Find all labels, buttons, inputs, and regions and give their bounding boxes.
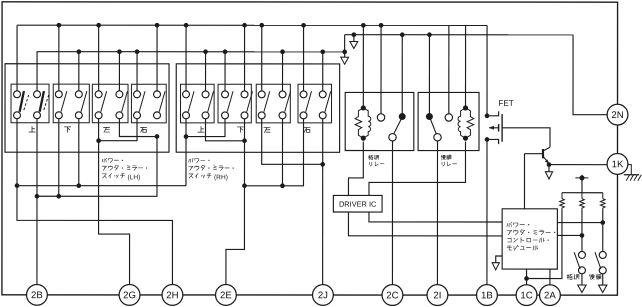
wire RH rightR column to terminal 2J xyxy=(322,119,324,285)
node LH rightR mid junction xyxy=(155,134,160,139)
terminal 2H xyxy=(162,285,183,306)
label power outer mirror control module xyxy=(507,222,555,250)
arrow marker below bus-C end xyxy=(341,57,349,64)
wire Q2 emitter to terminal 1K xyxy=(549,164,607,166)
LH sub-switch boxes xyxy=(11,84,166,123)
node w2 left junction xyxy=(35,194,40,199)
wire rail stubs xyxy=(562,193,603,199)
svg-text:2J: 2J xyxy=(318,290,328,301)
terminal 2G xyxy=(119,285,140,306)
relay K2 box xyxy=(418,92,479,150)
relay K2 closed contact xyxy=(426,113,433,120)
svg-text:2C: 2C xyxy=(386,290,398,301)
wire K1 coil to DRIVER IC xyxy=(348,142,363,196)
svg-text:(RH): (RH) xyxy=(214,174,228,181)
wire FET gate to transistor collector xyxy=(502,128,550,148)
node bus-C end junction xyxy=(342,49,347,54)
wire rail riser to node xyxy=(581,175,583,193)
svg-text:FET: FET xyxy=(498,99,513,108)
label FET xyxy=(498,99,513,108)
wire Q2 emitter ground stub xyxy=(548,165,550,172)
LH switch contact circles xyxy=(14,91,161,119)
wire stub below bus-B junction xyxy=(353,35,355,42)
relay K1 open contact xyxy=(377,114,384,121)
label power outer mirror switch LH xyxy=(102,158,147,181)
relay K2 common contact xyxy=(434,134,441,141)
wire w1 left segment xyxy=(17,185,186,187)
svg-text:2A: 2A xyxy=(544,290,556,301)
wire LH downL drop xyxy=(58,119,60,197)
wire RH downR column to terminal 2E xyxy=(226,119,245,285)
node RH downR mid junction xyxy=(242,138,247,143)
svg-text:2N: 2N xyxy=(611,110,623,121)
terminal 2I xyxy=(427,285,448,306)
svg-text:(LH): (LH) xyxy=(127,174,140,181)
wire LH leftR jog to rightR xyxy=(119,119,157,137)
wire DRIVER IC pin to module upper xyxy=(369,212,502,222)
power outer mirror switch LH box xyxy=(5,64,169,152)
wire w2 xyxy=(37,136,157,196)
wire w1b segment xyxy=(244,119,303,186)
terminal 2J xyxy=(313,285,334,306)
wire bus-C horizontal y=52 xyxy=(38,51,345,53)
wire DRIVER IC pin to module lower xyxy=(348,212,502,236)
node bus-B junction x=353.8 xyxy=(352,32,357,37)
wire bus-B right drop to 2N xyxy=(573,35,607,115)
label return relay xyxy=(441,155,457,166)
terminal 1B xyxy=(477,285,498,306)
relay K2 open contact xyxy=(445,114,452,121)
wire resistor top rail xyxy=(562,192,603,194)
wire LH leftL column to terminal 2G xyxy=(99,119,130,285)
wire bus-B horizontal y=35 xyxy=(345,34,573,36)
arrow marker below S18 xyxy=(599,285,607,293)
terminal 1K xyxy=(607,154,628,175)
node bus-A junction K1 contact xyxy=(379,23,384,28)
terminal 2E xyxy=(216,285,237,306)
power outer mirror switch RH box xyxy=(176,64,339,152)
node power feed cross junction xyxy=(575,175,588,180)
arrow marker below Q2 emitter xyxy=(545,172,552,179)
arrow marker below module stub xyxy=(492,263,499,270)
relay K1 common contact xyxy=(389,134,396,141)
node Q2 emitter junction xyxy=(547,162,552,167)
svg-text:1K: 1K xyxy=(612,159,624,170)
node bus-C junction dots xyxy=(76,49,325,54)
wire bus-A horizontal y=25 xyxy=(17,24,487,26)
wire module right pin lower to R2 xyxy=(557,234,582,236)
wire K2 closed contact riser xyxy=(428,35,430,117)
wire bus-C drops to switch tops xyxy=(37,52,323,91)
svg-text:2I: 2I xyxy=(433,290,441,301)
arrow marker below bus-B xyxy=(350,42,358,49)
node R3 junction xyxy=(600,220,605,225)
node RH upL mid junction xyxy=(184,134,189,139)
switch S17 storage xyxy=(574,251,585,273)
wire K1 closed contact riser xyxy=(401,35,403,117)
wire FET drain to terminal 1B xyxy=(486,139,488,284)
wire w1 riser at RH upL xyxy=(185,137,187,186)
wire bus-A drop to FET xyxy=(486,25,488,115)
wire RH upR-downR join xyxy=(206,119,245,141)
wire K2 coil to DRIVER IC xyxy=(369,142,466,196)
wire K1 common to terminal 2C xyxy=(391,141,393,285)
node w2 junction downL xyxy=(56,194,61,199)
svg-text:2G: 2G xyxy=(123,290,136,301)
wire S17 to ground arrow xyxy=(581,274,583,285)
wire R3 to switch S18 xyxy=(602,210,604,252)
wire module pin to terminal 2A xyxy=(549,269,551,285)
switch S18 return xyxy=(595,251,606,273)
wire Q2 base to module xyxy=(523,154,525,209)
wire K2 open contact riser xyxy=(448,25,450,114)
svg-text:1B: 1B xyxy=(481,290,493,301)
node w1 junction downR xyxy=(76,183,81,188)
arrow marker below S17 xyxy=(578,285,586,293)
node LH leftL mid junction xyxy=(96,138,101,143)
wire RH upL-downL join xyxy=(186,119,225,137)
wire S18 to ground arrow xyxy=(602,274,604,285)
node module 1C junction xyxy=(524,276,529,281)
node R2 junction xyxy=(580,233,585,238)
relay K1 closed contact xyxy=(399,113,406,120)
RH sub-switch labels up/down/left/right xyxy=(198,126,310,132)
svg-text:2E: 2E xyxy=(220,290,232,301)
node bus-B junction K1 xyxy=(400,32,405,37)
RH sub-switch boxes xyxy=(181,84,332,123)
svg-text:2H: 2H xyxy=(166,290,178,301)
label storage relay xyxy=(368,155,384,166)
node w1 left junction xyxy=(15,183,20,188)
LH sub-switch labels up/down/left/right xyxy=(29,126,147,132)
node bus-B junction K2 xyxy=(427,32,432,37)
RH switch blades S9-S16 xyxy=(188,91,331,112)
relay K1 box xyxy=(345,92,414,150)
label return switch xyxy=(589,274,601,279)
resistor R1 xyxy=(560,199,565,210)
wire LH upL column to w1 and w3 to terminal 2H xyxy=(17,119,173,285)
FET Q1 p-channel mosfet xyxy=(485,111,502,144)
wire LH upR column to w2 to terminal 2B xyxy=(36,119,38,285)
svg-text:DRIVER IC: DRIVER IC xyxy=(339,200,377,209)
wire module junction to resistor R1 xyxy=(527,210,562,279)
node w1b junction RH leftR xyxy=(280,183,285,188)
LH switch blades S1-S8 xyxy=(20,91,165,112)
wire RH leftR drop xyxy=(281,119,283,186)
wire LH downR drop xyxy=(78,119,80,186)
label storage switch xyxy=(567,274,579,279)
wire module pin to terminal 1C xyxy=(526,269,528,285)
wire R2 to switch S17 xyxy=(581,210,583,252)
transistor Q2 xyxy=(524,147,550,163)
resistor R3 xyxy=(600,199,605,210)
resistor R2 xyxy=(580,199,585,210)
label power outer mirror switch RH xyxy=(189,158,234,181)
earth ground at 1K xyxy=(624,165,642,181)
node w1b junction at RH downR xyxy=(242,183,247,188)
node bus-A junction dots xyxy=(57,23,306,28)
relay K2 blade xyxy=(430,119,436,134)
relay K1 blade xyxy=(394,119,402,134)
terminal 2A xyxy=(540,285,561,306)
wire K1 open contact riser xyxy=(380,25,382,114)
wire LH rightL jog to leftL xyxy=(99,119,137,141)
terminal 2B xyxy=(27,284,48,305)
terminal 2N xyxy=(607,104,628,125)
relay K2 coil xyxy=(458,25,474,140)
terminal 1C xyxy=(516,285,537,306)
driver IC U2 box xyxy=(333,195,382,212)
relay K1 coil xyxy=(355,25,371,140)
node RH rightR junction y=164 xyxy=(320,162,325,167)
svg-text:2B: 2B xyxy=(31,290,43,301)
power outer mirror control module box xyxy=(502,209,557,269)
wire bus-C end vertical riser to bus-B xyxy=(344,35,346,57)
terminal 2C xyxy=(382,285,403,306)
wire bus-A drops to switch tops xyxy=(17,25,304,91)
wire module right pin upper to R3 xyxy=(557,222,602,224)
node bus-A junction K1 coil xyxy=(361,23,366,28)
wire K2 common to terminal 2I xyxy=(436,141,438,285)
svg-text:1C: 1C xyxy=(520,290,532,301)
wire module ground stub xyxy=(496,256,502,263)
RH switch contact circles xyxy=(183,91,327,119)
wire RH leftL jog to rightR column xyxy=(262,119,323,165)
